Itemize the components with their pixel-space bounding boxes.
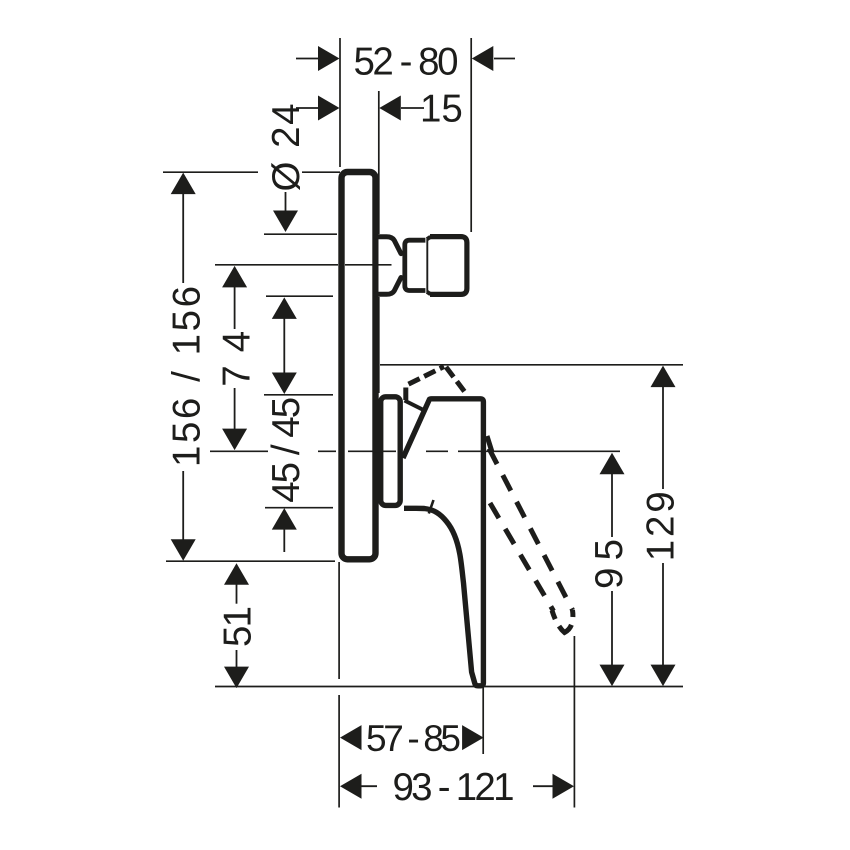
extension line right of 52-80 [470, 38, 472, 232]
arrow 129 down [651, 665, 676, 687]
arrow 156/156 down [171, 539, 196, 561]
spout neck bottom edge [376, 278, 401, 295]
dashed lever back edge [406, 367, 444, 401]
arrow 51 up [224, 563, 249, 585]
extension line below plate left [338, 562, 340, 808]
svg-text:52 - 80: 52 - 80 [354, 41, 459, 84]
arrow 45/45 down [272, 373, 297, 395]
dimension 156/156 [171, 173, 196, 561]
spout cap chamfer bottom [427, 292, 431, 294]
stem 45/45 [283, 318, 285, 374]
arrow stem dia 24 [285, 192, 287, 212]
dashed raised lever [406, 367, 573, 633]
dimension 52-80 [296, 46, 515, 71]
valve body [381, 397, 401, 506]
extension line spout bottom [266, 295, 333, 297]
svg-text:57 - 85: 57 - 85 [366, 718, 461, 759]
escutcheon plate [342, 172, 376, 559]
extension line plate top [163, 171, 340, 173]
arrow 156/156 up [171, 173, 196, 195]
extension line 129 top [380, 364, 683, 366]
stem 74 upper [234, 286, 236, 329]
spout cap chamfer top [427, 237, 431, 239]
arrow 15 left [296, 107, 319, 109]
handle shelf tick [429, 500, 434, 514]
arrow 95 down [600, 665, 625, 687]
dashed lever shoulder [446, 367, 465, 392]
arrow 93-121 right [553, 774, 575, 799]
dashed lever tip cap [552, 610, 573, 633]
stem 51 lower [236, 650, 238, 667]
spout end cap outline [430, 237, 467, 295]
dimension 51 [224, 563, 249, 688]
extension line below lever tip [482, 687, 484, 754]
extension line for 15 (valve face) [378, 91, 380, 393]
dimension 93-121 [340, 774, 574, 799]
dimension 15 [296, 96, 424, 121]
extension line 45/45 middle [264, 394, 333, 396]
dimension 45/45 upper [272, 297, 297, 552]
arrow 45/45 lower (points up to line, tail below) [272, 508, 297, 529]
svg-text:129: 129 [640, 491, 683, 561]
extension line left of 52-80 [339, 38, 341, 167]
svg-text:45 / 45: 45 / 45 [265, 397, 308, 503]
arrow 57-85 left [340, 725, 362, 750]
stem 45/45 lower tail [283, 529, 285, 552]
dashed lever inner edge [490, 503, 554, 611]
tail 93-121 right [533, 785, 554, 787]
stem 74 lower [234, 388, 236, 430]
dashed lever base dash [487, 436, 492, 452]
stem 95 upper [611, 473, 613, 537]
dimension 57-85 [340, 725, 484, 750]
floor extension line [215, 686, 683, 688]
spout cap face line [426, 239, 428, 293]
svg-text:93 - 121: 93 - 121 [393, 766, 515, 809]
handle centerline [210, 450, 620, 452]
svg-text:15: 15 [420, 88, 463, 131]
svg-text:156 / 156: 156 / 156 [166, 286, 209, 467]
svg-text:51: 51 [217, 606, 260, 647]
arrow 74 down [222, 429, 247, 451]
handle wedge notch [405, 401, 425, 411]
extension line 45/45 bottom [265, 507, 333, 509]
arrow 93-121 left [340, 774, 362, 799]
extension line below dashed lever tip [573, 636, 575, 808]
arrow 52-80 left [296, 58, 319, 60]
arrow 45/45 up [272, 297, 297, 319]
arrow 52-80 right [494, 58, 515, 60]
dimension dia 24 [273, 192, 298, 232]
arrow 95 up [600, 453, 625, 475]
stem 51 upper [236, 584, 238, 604]
stem 156/156 upper [182, 193, 184, 283]
dashed lever front edge [489, 449, 573, 611]
stem 129 upper [662, 386, 664, 489]
lever handle white fill [403, 399, 483, 686]
tail 93-121 left [360, 785, 377, 787]
arrow 51 down [224, 667, 249, 689]
dimension 74 [222, 266, 247, 450]
arrow dia 24 down [273, 211, 298, 233]
arrow 129 up [651, 366, 676, 388]
lever handle outline [403, 399, 483, 686]
spout neck white fill [379, 234, 404, 297]
arrow 15 right [401, 107, 424, 109]
spout end cap white fill [426, 234, 470, 297]
arrow 74 up [222, 266, 247, 288]
arrow 57-85 right [462, 725, 484, 750]
stem 129 lower [662, 563, 664, 666]
extension line plate bottom [166, 560, 335, 562]
svg-text:Ø 24: Ø 24 [265, 104, 308, 192]
stem 95 lower [611, 591, 613, 666]
stem 156/156 lower [182, 471, 184, 540]
extension line spout top [264, 233, 337, 235]
spout centerline [215, 264, 392, 266]
dimension 129 [651, 366, 676, 686]
dimension 95 [600, 453, 625, 686]
spout neck top edge [376, 237, 401, 254]
spout cylinder [405, 240, 426, 290]
